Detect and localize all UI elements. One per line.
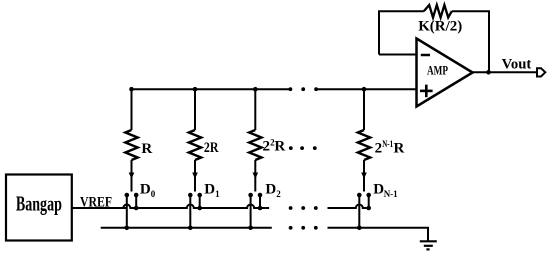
label DN-1 <box>373 181 398 199</box>
svg-text:2: 2 <box>375 140 383 156</box>
ground symbol <box>420 241 437 249</box>
top summing bus left segment <box>132 88 291 90</box>
svg-text:N-1: N-1 <box>384 189 398 199</box>
label 2^2R <box>263 137 286 154</box>
label 2^(N-1)R <box>375 139 405 157</box>
VREF bus ellipsis dots <box>289 206 318 210</box>
node junction dots on top bus <box>129 87 366 92</box>
resistor ladder ellipsis dots <box>289 146 317 150</box>
svg-text:2: 2 <box>276 189 281 199</box>
wire output <box>473 71 537 73</box>
svg-text:Vout: Vout <box>502 57 532 73</box>
top summing bus right segment to op-amp + input <box>316 88 416 90</box>
svg-text:AMP: AMP <box>427 63 448 78</box>
svg-text:R: R <box>141 141 152 157</box>
switch DN-1 <box>357 160 371 230</box>
svg-text:R: R <box>274 138 285 154</box>
port Vout terminal <box>537 68 545 76</box>
node output junction <box>486 70 491 75</box>
label D2 <box>265 181 281 199</box>
feedback resistor K(R/2) <box>379 5 489 72</box>
svg-text:D: D <box>140 181 151 197</box>
resistor 2^2R branch 3 <box>249 89 261 160</box>
op-amp U1 <box>417 39 473 107</box>
resistor 2R branch 2 <box>189 89 201 160</box>
switch D0 <box>125 160 139 230</box>
svg-text:D: D <box>373 181 384 197</box>
svg-text:R: R <box>394 140 405 156</box>
ground-return bus ellipsis dots <box>289 226 318 230</box>
svg-text:N-1: N-1 <box>382 139 393 149</box>
svg-text:D: D <box>265 181 276 197</box>
svg-text:D: D <box>204 181 215 197</box>
resistor R branch 1 <box>125 89 137 160</box>
svg-text:0: 0 <box>151 189 156 199</box>
VREF bus left segment with crossover humps <box>123 205 269 209</box>
switch D1 <box>188 160 202 230</box>
svg-text:2: 2 <box>263 138 271 154</box>
svg-text:K(R/2): K(R/2) <box>418 18 462 34</box>
label D0 <box>140 181 156 199</box>
svg-text:2R: 2R <box>204 140 219 156</box>
switch D2 <box>248 160 262 230</box>
ground-return bus right segment <box>328 228 429 242</box>
wire op-amp inverting input <box>379 54 417 56</box>
wire VREF from Bangap to bus <box>72 207 127 209</box>
svg-text:Bangap: Bangap <box>16 192 62 216</box>
svg-text:VREF: VREF <box>80 194 112 210</box>
label D1 <box>204 181 220 199</box>
VREF bus right segment with crossover hump <box>328 205 370 209</box>
svg-text:1: 1 <box>215 189 220 199</box>
resistor 2^(N-1)R branch 4 <box>358 89 370 160</box>
Bangap block <box>6 175 72 241</box>
top summing bus ellipsis dots <box>289 87 319 91</box>
ground-return bus left segment <box>101 227 272 229</box>
